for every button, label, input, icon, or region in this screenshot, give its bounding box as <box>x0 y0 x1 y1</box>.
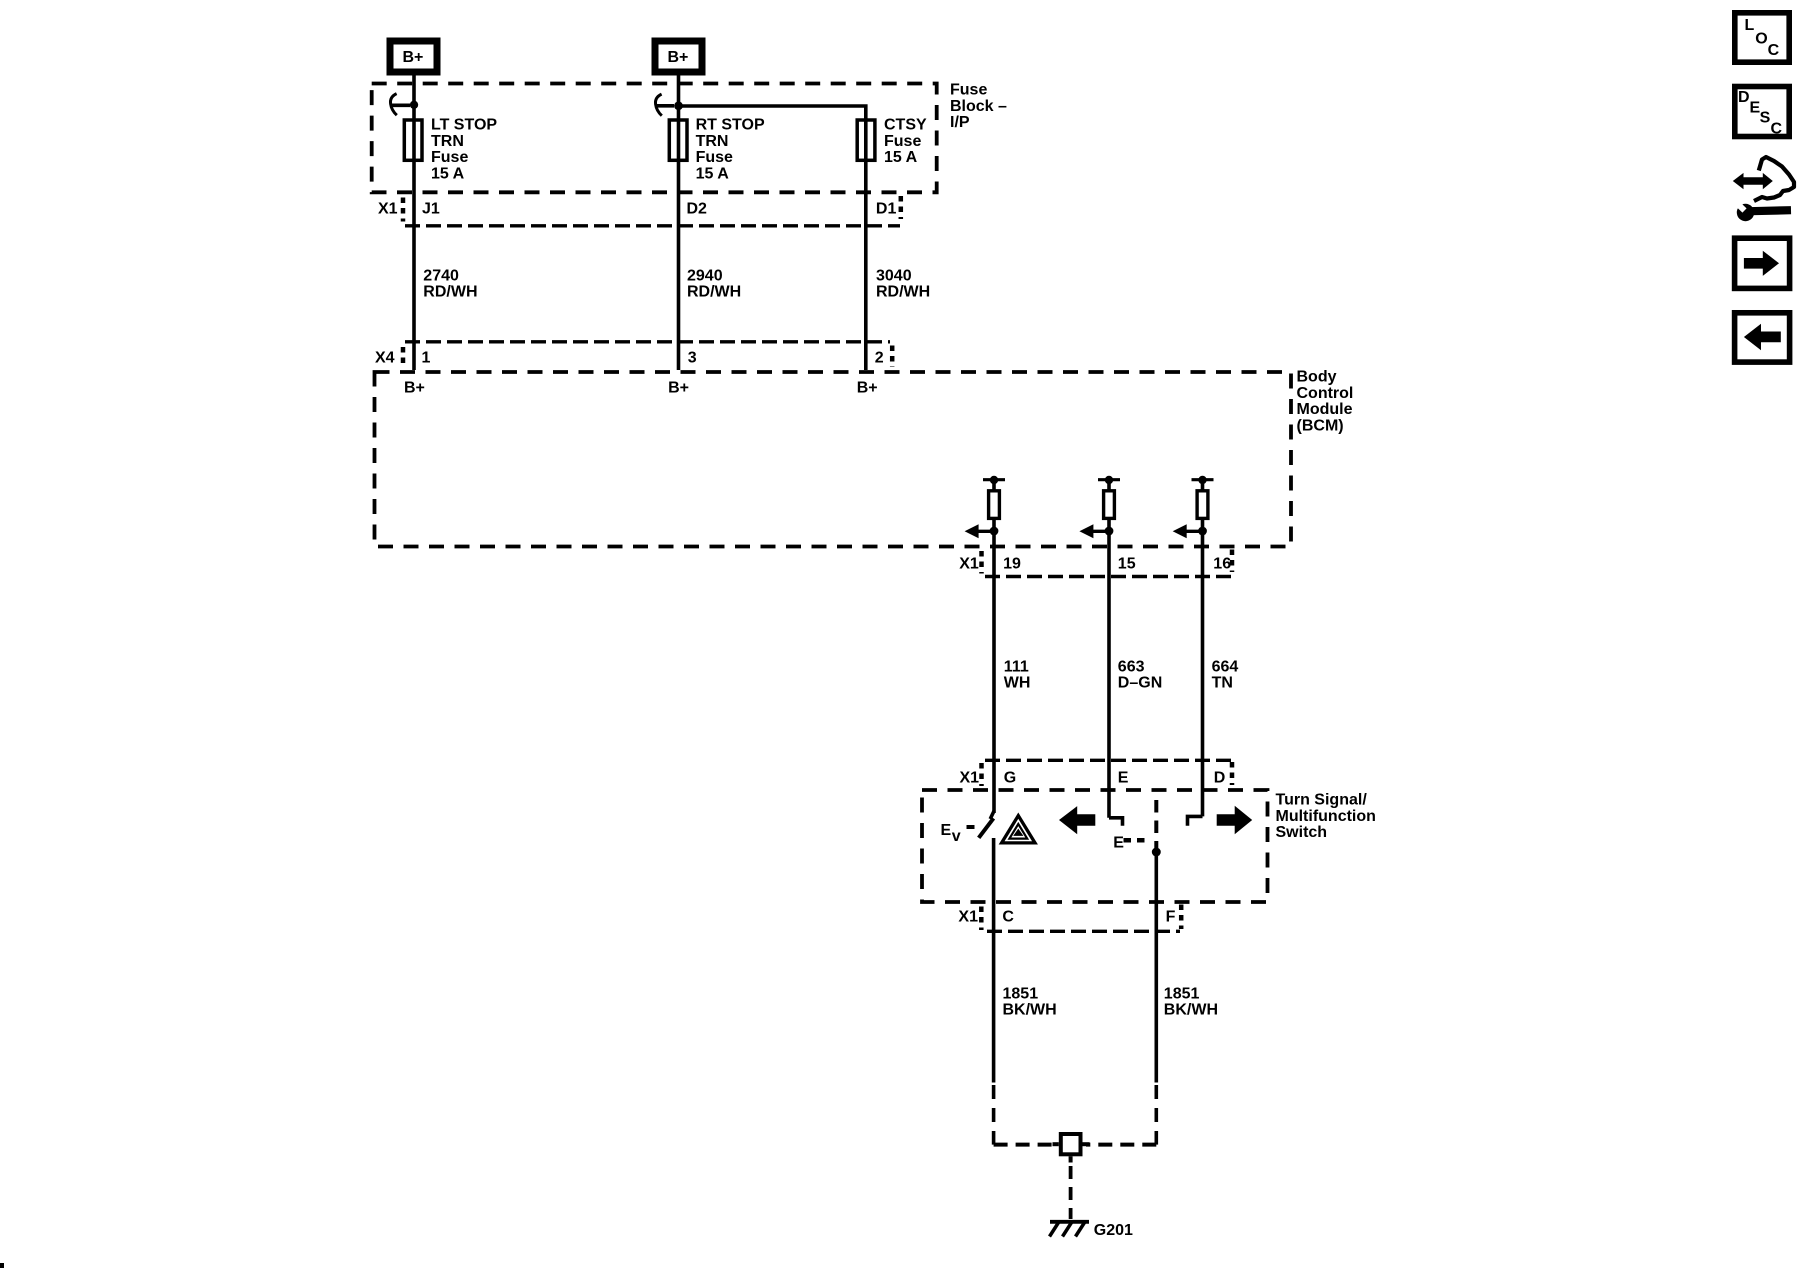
svg-text:v: v <box>952 828 961 845</box>
wire from B+1 down to BCM <box>412 75 416 370</box>
svg-text:16: 16 <box>1213 556 1231 573</box>
svg-text:Module: Module <box>1297 401 1353 418</box>
page corner mark <box>0 1263 4 1268</box>
connector strip X1 G E D <box>960 760 1234 786</box>
splice block <box>1053 1134 1090 1163</box>
svg-text:O: O <box>1755 31 1767 48</box>
LOC icon box <box>1735 13 1789 62</box>
turn switch contact E (center) <box>1109 818 1123 826</box>
svg-text:X1: X1 <box>960 769 980 786</box>
wire label 663 D-GN <box>1118 658 1162 691</box>
svg-text:Block –: Block – <box>950 98 1007 115</box>
svg-text:Turn Signal/: Turn Signal/ <box>1276 791 1368 808</box>
svg-text:E: E <box>1118 769 1129 786</box>
svg-text:B+: B+ <box>857 379 878 396</box>
Fuse Block label <box>950 82 1007 131</box>
svg-text:X4: X4 <box>375 350 395 367</box>
svg-text:D2: D2 <box>687 201 708 218</box>
svg-text:Fuse: Fuse <box>696 149 733 166</box>
svg-text:3: 3 <box>688 350 697 367</box>
svg-text:15: 15 <box>1118 556 1136 573</box>
svg-text:B+: B+ <box>668 379 689 396</box>
fuse RT STOP TRN <box>669 120 687 160</box>
node junction dot 2 <box>674 101 683 110</box>
svg-text:G: G <box>1004 769 1016 786</box>
wire label 1851 BK/WH (left) <box>1003 986 1057 1019</box>
svg-text:1851: 1851 <box>1164 986 1200 1003</box>
wire 663 D-GN from BCM to switch <box>1107 531 1111 818</box>
svg-text:Body: Body <box>1297 368 1337 385</box>
wire C down from hazard switch <box>992 838 996 1083</box>
connector strip X1 C F <box>958 905 1181 932</box>
svg-text:D: D <box>1214 769 1226 786</box>
hazard switch blade <box>979 811 994 838</box>
arrow out of R1 <box>965 524 994 538</box>
junction dot R3 <box>1198 527 1207 536</box>
svg-text:RD/WH: RD/WH <box>423 284 477 301</box>
hazard switch node E label <box>941 822 975 845</box>
left turn arrow <box>1059 806 1095 834</box>
svg-text:I/P: I/P <box>950 114 970 131</box>
wire label 2740 RD/WH <box>423 268 477 301</box>
junction dot R2 <box>1105 527 1114 536</box>
resistor R3 in BCM <box>1192 476 1214 532</box>
svg-text:15 A: 15 A <box>431 165 465 182</box>
BCM label <box>1297 368 1354 434</box>
svg-text:664: 664 <box>1212 658 1239 675</box>
Body Control Module dashed box <box>375 372 1292 547</box>
svg-text:BK/WH: BK/WH <box>1164 1002 1218 1019</box>
svg-text:C: C <box>1768 42 1780 59</box>
svg-text:2940: 2940 <box>687 268 723 285</box>
svg-text:1: 1 <box>422 350 431 367</box>
svg-text:2: 2 <box>875 350 884 367</box>
back arrow icon box <box>1735 313 1790 362</box>
node junction dot 1 <box>410 101 418 109</box>
right turn arrow <box>1217 806 1253 835</box>
svg-text:Multifunction: Multifunction <box>1276 808 1376 825</box>
svg-text:19: 19 <box>1003 556 1021 573</box>
svg-text:B+: B+ <box>668 49 689 66</box>
svg-text:F: F <box>1166 908 1176 925</box>
wire label 2940 RD/WH <box>687 268 741 301</box>
svg-text:111: 111 <box>1004 658 1029 675</box>
svg-text:663: 663 <box>1118 658 1145 675</box>
resistor R1 in BCM <box>983 476 1005 532</box>
svg-text:E: E <box>1113 834 1124 851</box>
svg-text:(BCM): (BCM) <box>1297 418 1344 435</box>
svg-text:LT STOP: LT STOP <box>431 117 497 134</box>
svg-text:RD/WH: RD/WH <box>687 284 741 301</box>
svg-text:S: S <box>1760 110 1771 127</box>
svg-text:2740: 2740 <box>423 268 459 285</box>
svg-text:Fuse: Fuse <box>884 133 921 150</box>
B+ terminal box 2 <box>655 41 702 72</box>
fuse RT STOP TRN label <box>696 117 765 183</box>
svg-text:D–GN: D–GN <box>1118 674 1162 691</box>
fuse CTSY <box>857 120 875 160</box>
dashed link to wire F <box>1154 800 1158 848</box>
svg-text:D1: D1 <box>876 201 897 218</box>
svg-text:D: D <box>1738 89 1750 106</box>
svg-text:E: E <box>941 822 952 839</box>
svg-text:X1: X1 <box>959 556 979 573</box>
arrow out of R3 <box>1173 524 1203 538</box>
svg-text:15 A: 15 A <box>696 165 730 182</box>
svg-text:WH: WH <box>1004 674 1031 691</box>
svg-text:BK/WH: BK/WH <box>1003 1002 1057 1019</box>
wire F down from junction <box>1155 852 1159 1083</box>
fuse clip hook 2 <box>655 94 661 116</box>
svg-text:J1: J1 <box>422 201 440 218</box>
DESC icon box <box>1735 87 1789 138</box>
svg-text:X1: X1 <box>378 201 398 218</box>
connector strip X4 1 3 2 <box>375 342 892 367</box>
Turn Signal / Multifunction Switch dashed box <box>922 790 1268 902</box>
fuse CTSY label <box>884 117 927 166</box>
svg-text:Switch: Switch <box>1276 824 1328 841</box>
svg-text:L: L <box>1745 17 1755 34</box>
svg-text:B+: B+ <box>404 379 425 396</box>
svg-text:X1: X1 <box>958 908 978 925</box>
svg-text:15 A: 15 A <box>884 149 918 166</box>
connector strip X1 J1 D2 D1 <box>378 196 901 226</box>
svg-text:CTSY: CTSY <box>884 117 927 134</box>
svg-text:Fuse: Fuse <box>431 149 468 166</box>
wire 664 TN from BCM to switch <box>1201 531 1205 816</box>
fuse clip hook 1 <box>390 94 396 116</box>
svg-text:C: C <box>1771 120 1783 137</box>
dashed wire segment F to splice <box>1086 1085 1156 1145</box>
Turn Signal switch label <box>1276 791 1376 841</box>
svg-text:C: C <box>1002 908 1014 925</box>
svg-text:B+: B+ <box>403 49 424 66</box>
svg-text:G201: G201 <box>1094 1222 1133 1239</box>
wire stub to fuse clip 1 <box>392 104 410 108</box>
dashed wire segment C to splice <box>994 1085 1056 1145</box>
dashed wire to ground <box>1069 1166 1073 1219</box>
junction dot R1 <box>990 527 999 536</box>
fuse LT STOP TRN <box>404 120 422 160</box>
wire from junction 2 to CTSY fuse then down to BCM <box>679 106 866 370</box>
turn switch contact D (right) <box>1188 816 1203 825</box>
resistor R2 in BCM <box>1098 476 1120 532</box>
svg-text:RT STOP: RT STOP <box>696 117 765 134</box>
arrow out of R2 <box>1079 524 1109 538</box>
B+ terminal box 1 <box>390 41 437 72</box>
connector strip X1 19 15 16 <box>959 550 1233 577</box>
svg-text:3040: 3040 <box>876 268 912 285</box>
wire label 111 WH <box>1004 658 1031 691</box>
wire label 664 TN <box>1212 658 1239 691</box>
wire from B+2 down to BCM <box>677 75 681 370</box>
svg-text:TN: TN <box>1212 674 1233 691</box>
diagnostic icon (arrows + wrench) <box>1733 157 1794 221</box>
ground G201 <box>1050 1222 1090 1237</box>
svg-text:Control: Control <box>1297 385 1354 402</box>
hazard warning triangle symbol <box>1002 816 1035 843</box>
wire label 3040 RD/WH <box>876 268 930 301</box>
wire stub to fuse clip 2 <box>657 104 674 108</box>
node E label (center) <box>1113 834 1148 851</box>
wire label 1851 BK/WH (right) <box>1164 986 1218 1019</box>
svg-text:TRN: TRN <box>431 133 464 150</box>
fuse LT STOP TRN label <box>431 117 497 183</box>
svg-text:1851: 1851 <box>1003 986 1039 1003</box>
svg-text:TRN: TRN <box>696 133 729 150</box>
svg-text:Fuse: Fuse <box>950 82 987 99</box>
Fuse Block - I/P dashed box <box>372 84 937 193</box>
svg-text:RD/WH: RD/WH <box>876 284 930 301</box>
forward arrow icon box <box>1735 238 1790 288</box>
wire 111 WH from BCM to switch <box>992 531 996 813</box>
junction dot F <box>1152 848 1161 857</box>
